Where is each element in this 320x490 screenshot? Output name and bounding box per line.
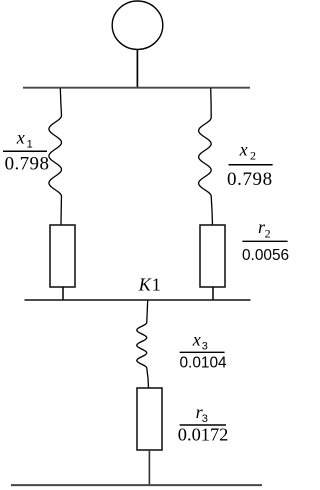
svg-text:x: x — [239, 140, 248, 160]
fraction bar x2 — [229, 164, 273, 166]
svg-text:3: 3 — [202, 341, 208, 353]
bus 1 (top busbar) — [23, 87, 250, 89]
svg-text:x: x — [192, 330, 201, 350]
fraction bar r2 — [242, 240, 287, 242]
svg-text:0.0172: 0.0172 — [178, 424, 229, 444]
svg-text:0.798: 0.798 — [227, 169, 273, 190]
bus 3 (bottom busbar) — [11, 484, 262, 486]
svg-text:K: K — [138, 275, 152, 295]
wire R3 to bus 3 — [148, 450, 150, 486]
bus 2 (K1 busbar) — [25, 299, 251, 301]
fraction bar r3 — [180, 424, 226, 426]
svg-text:0.798: 0.798 — [5, 153, 50, 174]
inductor x3 (middle reactance squiggle with wires) — [137, 300, 149, 388]
svg-text:2: 2 — [265, 226, 271, 240]
resistor R3 (middle rectangle) — [137, 388, 162, 450]
resistor R2 (right rectangle) — [200, 225, 225, 287]
fraction bar x1 — [3, 150, 47, 152]
svg-text:x: x — [16, 128, 25, 148]
generator G1 (circle) — [112, 1, 163, 49]
resistor R1 (left rectangle) — [50, 225, 75, 287]
svg-text:0.0056: 0.0056 — [242, 247, 289, 264]
svg-text:2: 2 — [250, 149, 256, 163]
svg-text:1: 1 — [152, 275, 161, 295]
inductor x2 (right reactance squiggle with wires) — [199, 88, 213, 225]
svg-text:0.0104: 0.0104 — [180, 354, 228, 371]
wire R1 to bus 2 — [62, 287, 64, 301]
inductor x1 (left reactance squiggle with wires) — [49, 88, 62, 225]
svg-text:1: 1 — [27, 139, 33, 151]
fraction bar x3 — [180, 351, 225, 353]
wire stem from generator to bus 1 — [136, 49, 138, 87]
wire R2 to bus 2 — [212, 287, 214, 301]
